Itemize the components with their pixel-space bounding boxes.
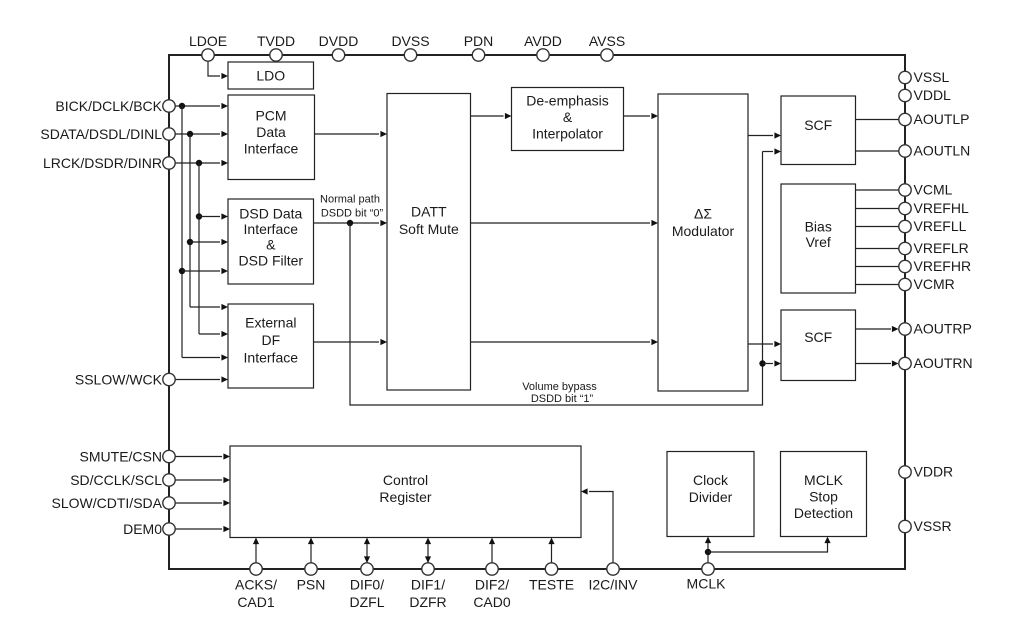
svg-text:&: &: [266, 237, 276, 253]
svg-text:PDN: PDN: [464, 33, 494, 49]
svg-text:ACKS/: ACKS/: [235, 577, 277, 593]
svg-text:AOUTLP: AOUTLP: [914, 111, 970, 127]
svg-text:SD/CCLK/SCL: SD/CCLK/SCL: [70, 472, 162, 488]
svg-text:DZFL: DZFL: [350, 594, 385, 610]
svg-text:VCMR: VCMR: [914, 276, 955, 292]
svg-text:DSDD bit “1”: DSDD bit “1”: [531, 393, 594, 405]
svg-text:Interface: Interface: [244, 140, 299, 156]
svg-text:CAD1: CAD1: [237, 594, 275, 610]
svg-text:Vref: Vref: [806, 234, 831, 250]
svg-text:VDDR: VDDR: [914, 464, 954, 480]
svg-text:Soft Mute: Soft Mute: [399, 221, 459, 237]
svg-text:CAD0: CAD0: [473, 594, 511, 610]
svg-text:Interpolator: Interpolator: [532, 126, 603, 142]
svg-text:MCLK: MCLK: [804, 472, 844, 488]
svg-text:SSLOW/WCK: SSLOW/WCK: [75, 372, 163, 388]
svg-text:&: &: [563, 109, 573, 125]
svg-text:Data: Data: [256, 124, 286, 140]
svg-text:De-emphasis: De-emphasis: [526, 93, 608, 109]
svg-text:VREFLR: VREFLR: [914, 240, 969, 256]
svg-text:DSD Filter: DSD Filter: [239, 252, 304, 268]
svg-text:Normal path: Normal path: [320, 194, 380, 206]
svg-text:DVDD: DVDD: [319, 33, 359, 49]
svg-text:PSN: PSN: [297, 577, 326, 593]
svg-text:VREFHL: VREFHL: [914, 200, 969, 216]
svg-text:AOUTRP: AOUTRP: [914, 321, 972, 337]
svg-text:External: External: [245, 315, 296, 331]
svg-text:Bias: Bias: [805, 219, 832, 235]
svg-text:DIF2/: DIF2/: [475, 577, 509, 593]
svg-text:VCML: VCML: [914, 182, 953, 198]
svg-text:DVSS: DVSS: [391, 33, 429, 49]
svg-text:AOUTLN: AOUTLN: [914, 143, 971, 159]
svg-text:AVSS: AVSS: [589, 33, 625, 49]
svg-text:BICK/DCLK/BCK: BICK/DCLK/BCK: [55, 98, 162, 114]
svg-text:PCM: PCM: [255, 107, 286, 123]
svg-text:DF: DF: [261, 332, 280, 348]
svg-text:Control: Control: [383, 472, 428, 488]
svg-text:Interface: Interface: [244, 349, 299, 365]
svg-text:SLOW/CDTI/SDA: SLOW/CDTI/SDA: [52, 495, 163, 511]
svg-text:SDATA/DSDL/DINL: SDATA/DSDL/DINL: [40, 126, 162, 142]
svg-text:LRCK/DSDR/DINR: LRCK/DSDR/DINR: [43, 155, 162, 171]
svg-text:DIF1/: DIF1/: [411, 577, 445, 593]
svg-text:Register: Register: [379, 489, 431, 505]
svg-text:Detection: Detection: [794, 505, 853, 521]
svg-text:DEM0: DEM0: [123, 521, 162, 537]
svg-text:ΔΣ: ΔΣ: [694, 205, 712, 221]
svg-text:SMUTE/CSN: SMUTE/CSN: [80, 449, 162, 465]
svg-text:Clock: Clock: [693, 472, 729, 488]
svg-text:LDO: LDO: [256, 68, 285, 84]
svg-text:DSDD bit “0”: DSDD bit “0”: [321, 208, 384, 220]
svg-text:MCLK: MCLK: [687, 576, 727, 592]
svg-text:DSD Data: DSD Data: [239, 206, 302, 222]
svg-text:SCF: SCF: [804, 117, 832, 133]
svg-text:I2C/INV: I2C/INV: [588, 577, 638, 593]
svg-text:TESTE: TESTE: [529, 577, 574, 593]
svg-text:AOUTRN: AOUTRN: [914, 355, 973, 371]
svg-text:VREFHR: VREFHR: [914, 258, 972, 274]
svg-text:DATT: DATT: [411, 204, 447, 220]
svg-text:Stop: Stop: [809, 489, 838, 505]
svg-text:VSSR: VSSR: [914, 518, 952, 534]
svg-text:VDDL: VDDL: [914, 87, 952, 103]
svg-text:Modulator: Modulator: [672, 223, 735, 239]
svg-text:TVDD: TVDD: [257, 33, 295, 49]
svg-text:DZFR: DZFR: [409, 594, 446, 610]
svg-text:Divider: Divider: [689, 489, 733, 505]
svg-text:LDOE: LDOE: [189, 33, 227, 49]
svg-text:Interface: Interface: [244, 221, 299, 237]
svg-text:SCF: SCF: [804, 329, 832, 345]
svg-text:VSSL: VSSL: [914, 69, 950, 85]
svg-text:VREFLL: VREFLL: [914, 218, 967, 234]
svg-text:AVDD: AVDD: [524, 33, 562, 49]
svg-text:Volume bypass: Volume bypass: [522, 381, 597, 393]
svg-text:DIF0/: DIF0/: [350, 577, 384, 593]
